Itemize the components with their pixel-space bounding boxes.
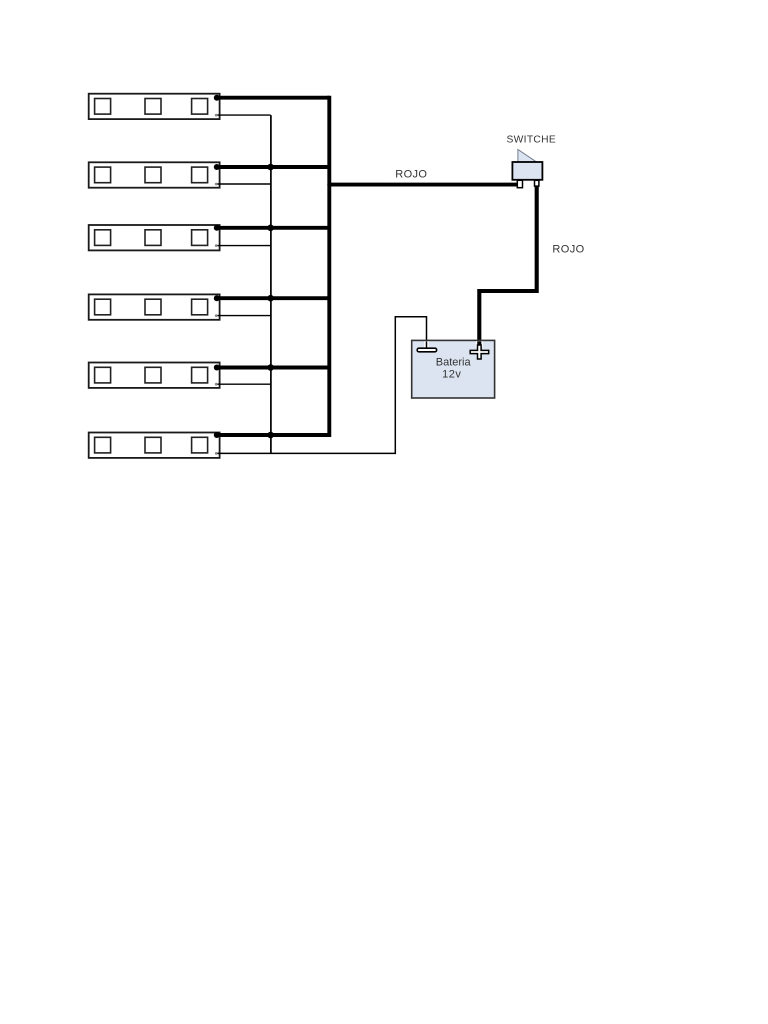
svg-text:SWITCHE: SWITCHE xyxy=(507,134,557,145)
cap dot thick lead strip 3 xyxy=(214,225,220,231)
wire: ROJO feed bus to switch xyxy=(329,183,519,187)
battery B1 xyxy=(412,340,495,398)
LED strip 3 xyxy=(89,225,220,250)
wire: thick positive lead strip 5 xyxy=(217,366,330,370)
LED strip 1 xyxy=(89,94,220,119)
junction dot bus crossing strip 3 xyxy=(267,225,274,232)
wire: switch to battery positive xyxy=(479,182,536,347)
connection dot thin lead strip 6 xyxy=(215,452,218,455)
junction dot bus crossing strip 6 xyxy=(267,432,274,439)
cap dot thick lead strip 6 xyxy=(214,432,220,438)
junction dot bus crossing strip 5 xyxy=(267,364,274,371)
connection dot thin lead strip 5 xyxy=(215,383,218,386)
switch SW1 xyxy=(512,149,542,187)
LED strip 6 xyxy=(89,433,220,458)
wire: thick positive lead strip 2 xyxy=(217,165,330,169)
wire: thin negative lead strip 3 xyxy=(216,245,271,247)
LED strip 2 xyxy=(89,162,220,187)
LED strip 5 xyxy=(89,363,220,388)
wire: thick positive lead strip 3 xyxy=(217,226,330,230)
wire: thin negative lead strip 4 xyxy=(216,315,271,317)
svg-text:ROJO: ROJO xyxy=(552,244,584,256)
wire: thin negative lead strip 1 xyxy=(216,114,271,116)
connection dot thin lead strip 2 xyxy=(215,183,218,186)
connection dot thin lead strip 3 xyxy=(215,244,218,247)
LED strip 4 xyxy=(89,294,220,319)
cap dot thick lead strip 4 xyxy=(214,295,220,301)
connection dot thin lead strip 4 xyxy=(215,314,218,317)
battery negative terminal xyxy=(417,348,436,352)
wire: thick positive lead strip 1 xyxy=(217,96,330,100)
wire: thick positive lead strip 6 xyxy=(217,433,330,437)
cap dot thick lead strip 1 xyxy=(214,95,220,101)
wire: thick positive lead strip 4 xyxy=(217,296,330,300)
battery positive terminal xyxy=(470,345,489,359)
wire: thin negative lead strip 5 xyxy=(216,383,271,385)
junction dot bus crossing strip 2 xyxy=(267,164,274,171)
svg-text:ROJO: ROJO xyxy=(395,169,427,181)
wire: thick positive bus vertical xyxy=(327,96,331,437)
svg-text:12v: 12v xyxy=(442,369,461,381)
svg-text:Bateria: Bateria xyxy=(436,357,472,369)
wire: thin negative lead strip 2 xyxy=(216,183,271,185)
junction dot bus crossing strip 4 xyxy=(267,295,274,302)
wire: thin negative bus vertical xyxy=(270,115,272,453)
cap dot thick lead strip 5 xyxy=(214,365,220,371)
connection dot thin lead strip 1 xyxy=(215,114,218,117)
wire: negative run strip 6 to battery xyxy=(216,317,427,454)
cap dot thick lead strip 2 xyxy=(214,164,220,170)
